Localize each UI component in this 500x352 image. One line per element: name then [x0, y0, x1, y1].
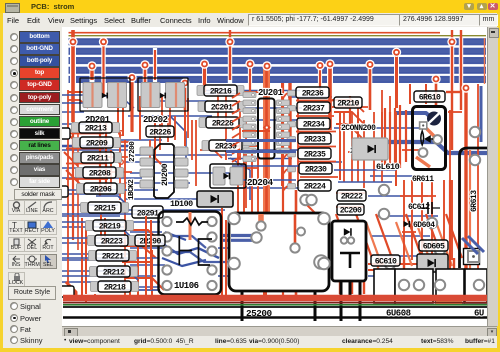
bottom-layer blue signal traces	[62, 91, 438, 288]
svg-text:6R613: 6R613	[470, 190, 479, 212]
svg-text:2R236: 2R236	[302, 89, 324, 98]
6R610 lens diode symbol	[421, 131, 424, 145]
silk partial boxes at left edge	[56, 128, 70, 139]
blue bus pair through bracket	[226, 139, 296, 142]
bottom green outline line	[63, 304, 487, 306]
component 2U201 tall outline	[258, 99, 275, 159]
resistor 2R236	[296, 87, 329, 98]
blue diagonals top right corner	[462, 238, 478, 254]
resistor 2R216	[204, 85, 237, 96]
component 20291	[132, 206, 163, 218]
gray pad column left of 2U201	[243, 92, 256, 162]
resistor 2R290	[135, 235, 165, 246]
red trace mesh left mid	[68, 84, 460, 300]
resistor 2R230	[299, 163, 332, 174]
svg-text:2C201: 2C201	[211, 103, 233, 112]
svg-text:1U106: 1U106	[174, 281, 199, 291]
red diagonal stubs to pad column	[283, 93, 287, 191]
diode 1D100 package	[197, 191, 233, 207]
resistor 2R218	[98, 281, 131, 292]
25200 legs	[241, 291, 244, 321]
resistor 2R223	[95, 235, 128, 246]
extra red west of 1U106	[145, 216, 147, 296]
transistor 2S200 TO220 outline	[332, 221, 366, 281]
resistor 2R221	[96, 250, 129, 261]
capacitor 2C200	[337, 204, 364, 215]
resistor 2R208 pads	[76, 168, 84, 178]
svg-text:2R212: 2R212	[103, 268, 125, 277]
svg-text:2C200: 2C200	[340, 206, 362, 215]
red horizontal connectors	[66, 92, 462, 270]
capacitor symbol 6C612	[428, 202, 432, 214]
resistor 2R219 pads	[86, 221, 94, 231]
1U106 internal bracket symbols	[179, 236, 192, 265]
25200 internal trunk stub	[258, 214, 264, 224]
trimmer 6R610 outline	[413, 107, 446, 170]
resistor 2R226	[146, 126, 174, 137]
canvas	[62, 27, 487, 326]
extra red traces mid-right zone	[332, 92, 462, 186]
red stubs to pad column	[232, 93, 240, 162]
resistor 2R228	[206, 117, 239, 128]
6R610 internal square pad	[420, 122, 427, 129]
diode symbol 6D604	[404, 221, 409, 227]
1U106 internal blue diagonals	[160, 242, 219, 258]
diode package 6D606	[417, 254, 448, 272]
25200 internal pads	[251, 232, 261, 242]
svg-text:6D604: 6D604	[413, 221, 435, 230]
via diamond in 2U201	[263, 124, 271, 132]
bott-GND plane band 4	[69, 67, 487, 74]
svg-text:2R206: 2R206	[90, 185, 112, 194]
vertical scrollbar	[487, 27, 498, 326]
orange tab bottom right	[436, 301, 462, 305]
thick blue bus pair into 25200	[222, 234, 258, 237]
svg-text:6L610: 6L610	[376, 162, 400, 172]
svg-text:2R213: 2R213	[85, 124, 107, 133]
resistor 2R210	[334, 97, 362, 108]
power rail bottom red band	[63, 295, 487, 302]
1U106 internal zigzag symbol	[176, 218, 208, 225]
svg-text:2R237: 2R237	[303, 104, 325, 113]
resistor 2R208	[83, 167, 116, 178]
resistor 2R212 pads	[90, 267, 98, 277]
resistor 6R610	[414, 91, 445, 102]
svg-text:2R208: 2R208	[89, 169, 111, 178]
bott-GND plane band 3	[69, 57, 487, 64]
connector big pads	[399, 280, 409, 290]
svg-text:2R224: 2R224	[304, 182, 326, 191]
svg-text:27200: 27200	[129, 141, 137, 162]
svg-text:2R222: 2R222	[341, 192, 363, 201]
top-layer red traces verticals	[73, 30, 478, 298]
extra blue traces fill	[62, 95, 396, 296]
resistor 2R235	[298, 148, 331, 159]
2S200 internal diode symbol	[344, 228, 351, 236]
red hatch left of trimmer	[385, 105, 406, 168]
resistor 2R211	[81, 152, 114, 163]
6R610 internal round pads	[433, 135, 442, 144]
resistor 2R239	[209, 140, 242, 151]
25200 internal red drop	[294, 214, 297, 246]
diode package mid right	[352, 138, 388, 160]
capacitor 2C201	[205, 101, 238, 112]
svg-text:2D204: 2D204	[247, 177, 274, 188]
power IC 25200 outline	[229, 213, 329, 291]
capacitor 2C201 pads	[198, 102, 206, 112]
svg-text:2R223: 2R223	[101, 237, 123, 246]
resistor 2R212	[97, 266, 130, 277]
via pads in left column area	[117, 129, 126, 138]
svg-text:2R235: 2R235	[304, 150, 326, 159]
bottom silk line lower	[63, 316, 487, 318]
2U200 side pads	[140, 147, 188, 188]
red verticals behind left resistor column	[64, 120, 111, 196]
horizontal scrollbar	[62, 326, 497, 337]
resistor 2R224	[298, 180, 331, 191]
extra red traces right lower zone	[400, 150, 470, 296]
25200 corner pads	[228, 213, 240, 225]
gray pad column left of right resistor bank	[288, 91, 296, 189]
bott-GND plane band 1	[69, 38, 487, 45]
red diagonal traces bottom right	[336, 214, 462, 294]
title bar	[0, 0, 500, 13]
resistor 2R228 pads	[199, 118, 207, 128]
diode 6D605 package	[419, 240, 448, 251]
svg-text:6R611: 6R611	[412, 175, 434, 184]
svg-text:2R210: 2R210	[337, 99, 359, 108]
canvas background	[62, 27, 487, 326]
svg-text:6C610: 6C610	[375, 257, 397, 266]
svg-text:2R226: 2R226	[149, 128, 171, 137]
2S200 internal tab symbol	[340, 253, 360, 268]
2S200 internal pads	[341, 237, 347, 243]
svg-text:2R221: 2R221	[102, 252, 124, 261]
bott-GND plane band 5	[69, 76, 487, 83]
red thin line right edge crossing bands	[484, 38, 486, 84]
resistor 2R216 pads	[197, 86, 205, 96]
resistor 2R221 pads	[89, 251, 97, 261]
connector footprint row bottom right	[374, 269, 487, 303]
resistor 2R237	[297, 102, 330, 113]
svg-text:2R230: 2R230	[305, 165, 327, 174]
svg-text:2CONN200: 2CONN200	[341, 124, 376, 133]
svg-text:2R216: 2R216	[210, 87, 232, 96]
25200 internal bus pair	[231, 234, 256, 237]
resistor 2R206	[84, 183, 117, 194]
svg-text:2D202: 2D202	[143, 115, 168, 125]
svg-text:6D605: 6D605	[423, 242, 445, 251]
resistor 2R215	[88, 202, 121, 213]
diode 2D201 package	[80, 78, 130, 111]
capacitor 6C610	[371, 255, 400, 266]
svg-text:2R211: 2R211	[87, 154, 109, 163]
menu bar	[3, 13, 497, 28]
resistor 2R209 pads	[73, 138, 81, 148]
6R610 adjuster screw circle	[427, 112, 441, 126]
resistor 2R233	[298, 133, 331, 144]
IC 6U608 outline right	[460, 148, 488, 268]
resistor 2R213 pads	[72, 123, 80, 133]
6R610 arrow pointing left	[426, 136, 433, 141]
board outline top edge	[69, 35, 487, 37]
resistor 2R206 pads	[77, 184, 85, 194]
resistor 2R211 pads	[74, 153, 82, 163]
IC 2U200 vertical outline	[154, 144, 174, 198]
svg-text:6R610: 6R610	[419, 93, 441, 102]
svg-text:2U200: 2U200	[161, 163, 170, 186]
bott-GND plane band 2	[69, 48, 487, 55]
extra red traces center zone	[230, 83, 316, 300]
bottom maroon line	[63, 302, 487, 304]
resistor 2R215 pads	[81, 203, 89, 213]
resistor 2R222	[337, 190, 366, 201]
via pads on GND bands	[68, 37, 77, 46]
trace clearance channels in GND bands	[73, 37, 461, 84]
1U106 internal orange trace	[189, 212, 192, 240]
gray pad column right of 2U201	[277, 100, 290, 154]
2S200 legs	[340, 281, 343, 321]
svg-text:2R209: 2R209	[86, 139, 108, 148]
wire top red rail	[69, 32, 441, 34]
svg-text:20291: 20291	[137, 209, 159, 218]
resistor 2R239 pads	[202, 141, 210, 151]
svg-text:2R228: 2R228	[212, 119, 234, 128]
optocoupler IC 1U106 outline	[159, 212, 222, 295]
resistor 2R209	[80, 137, 113, 148]
red traces bottom left mesh	[66, 208, 226, 302]
svg-text:1BCK2: 1BCK2	[128, 179, 136, 200]
svg-text:2R218: 2R218	[104, 283, 126, 292]
svg-text:6U608: 6U608	[386, 309, 411, 319]
svg-text:2U201: 2U201	[258, 88, 284, 98]
bottom silk line upper	[63, 306, 487, 308]
svg-text:2R215: 2R215	[94, 204, 116, 213]
svg-text:2R233: 2R233	[304, 135, 326, 144]
status bar	[62, 336, 497, 348]
diode 2D202 package	[138, 78, 188, 111]
blue trace diagonals mid	[150, 116, 186, 160]
resistor 2R213	[79, 122, 112, 133]
resistor 2R234	[297, 118, 330, 129]
1U106 pin pads	[162, 217, 216, 290]
svg-text:6U: 6U	[474, 309, 484, 319]
resistor 2R218 pads	[91, 282, 99, 292]
thick red trunk mid	[263, 66, 270, 212]
diode 2D204 package	[210, 164, 246, 188]
thick blue bus right with jog	[382, 142, 487, 153]
svg-text:2R234: 2R234	[303, 120, 325, 129]
svg-text:1D100: 1D100	[170, 199, 193, 209]
trimmer 6R610 internal orange diagonals	[423, 125, 434, 136]
left sidebar	[3, 27, 62, 348]
svg-text:2R219: 2R219	[99, 222, 121, 231]
resistor 2R223 pads	[88, 236, 96, 246]
square pad with hole right	[464, 249, 480, 265]
blue trace vertical right edge	[480, 86, 483, 142]
resistor 2R219	[93, 220, 126, 231]
extra red traces upper left zone	[68, 90, 222, 186]
gray component pads scattered	[300, 195, 310, 205]
